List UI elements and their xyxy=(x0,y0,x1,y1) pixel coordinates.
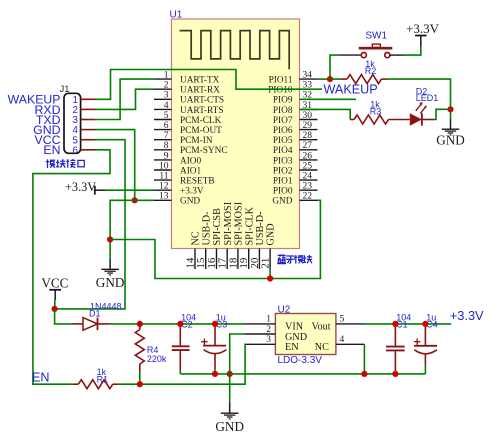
U1 pin 30 (PIO7) stub, number, name xyxy=(273,111,318,126)
wire U1 pin 31 to R3 xyxy=(300,109,351,119)
diode D1 1N4448 xyxy=(73,318,110,331)
svg-text:VIN: VIN xyxy=(285,321,304,332)
svg-text:6: 6 xyxy=(164,121,169,131)
svg-text:PIO2: PIO2 xyxy=(273,166,293,176)
U1 pin 13 (GND) stub, number, name xyxy=(154,192,200,207)
capacitor C4 1u polarized xyxy=(414,324,437,374)
svg-text:PIO9: PIO9 xyxy=(273,96,293,106)
svg-text:12: 12 xyxy=(159,182,169,192)
svg-text:3: 3 xyxy=(266,335,271,345)
svg-text:9: 9 xyxy=(164,151,169,161)
U2 pin 4 stub xyxy=(336,335,365,345)
label LDO-3.3V xyxy=(278,355,323,366)
svg-text:1: 1 xyxy=(266,315,271,325)
svg-text:13: 13 xyxy=(159,192,169,202)
U1 pin 12 (+3.3V) stub, number, name xyxy=(154,182,204,197)
svg-text:SPI-MOSI: SPI-MOSI xyxy=(223,201,234,245)
svg-text:AIO0: AIO0 xyxy=(180,156,202,166)
U1 pin 20 (USB-D-) stub, number, name (rotated) xyxy=(249,211,266,269)
ground symbol bottom xyxy=(215,403,244,434)
svg-text:UART-TX: UART-TX xyxy=(180,76,220,86)
bluetooth module U1 body xyxy=(172,19,300,249)
svg-text:J1: J1 xyxy=(60,84,70,95)
U1 pin 33 (PIO10) stub, number, name xyxy=(268,81,317,96)
antenna meander inside U1 xyxy=(180,31,290,70)
resistor R1 xyxy=(73,380,118,389)
wire R2 to GND drop xyxy=(387,79,451,119)
svg-text:PIO0: PIO0 xyxy=(273,187,293,197)
svg-text:8: 8 xyxy=(164,141,169,151)
svg-text:R2: R2 xyxy=(365,66,377,76)
U1 pin 5 (PCM-CLK) stub, number, name xyxy=(154,111,222,126)
svg-text:PIO11: PIO11 xyxy=(269,76,293,86)
wire +3.3V to U1 pin 12 xyxy=(105,189,154,191)
designator U1 xyxy=(170,10,183,21)
wire U1 pin13 GND to left GND symbol xyxy=(110,200,154,259)
svg-text:7: 7 xyxy=(164,131,169,141)
U1 pin 19 (SPI-CLK) stub, number, name (rotated) xyxy=(238,206,255,269)
U2 pin names VIN Vout GND EN NC xyxy=(285,321,331,353)
value 1u / designator C4 xyxy=(426,313,438,330)
svg-text:D1: D1 xyxy=(89,309,101,319)
U1 pin 6 (PCM-OUT) stub, number, name xyxy=(154,121,222,136)
power port +3.3V top right xyxy=(406,21,440,36)
svg-text:EN: EN xyxy=(285,342,299,353)
wire LED cathode to GND drop xyxy=(434,109,451,119)
U1 pin 2 (UART-RX) stub, number, name xyxy=(154,81,220,96)
designator R4 / value 220k xyxy=(147,345,167,364)
wire bottom GND rail xyxy=(180,373,425,375)
svg-text:PCM-CLK: PCM-CLK xyxy=(180,116,222,126)
U1 pin 34 (PIO11) stub, number, name xyxy=(269,71,318,86)
U1 pin 3 (UART-CTS) stub, number, name xyxy=(154,91,224,106)
net label WAKEUP xyxy=(324,82,378,96)
svg-text:SPI-CSB: SPI-CSB xyxy=(212,208,223,246)
U1 pin 7 (PCM-IN) stub, number, name xyxy=(154,131,213,146)
svg-text:29: 29 xyxy=(303,121,313,131)
designator SW1 xyxy=(365,30,387,41)
svg-text:R1: R1 xyxy=(97,375,109,385)
net label EN xyxy=(32,370,50,384)
svg-text:SPI-CLK: SPI-CLK xyxy=(244,206,255,245)
svg-text:NC: NC xyxy=(315,342,329,353)
U1 pin 23 (PIO0) stub, number, name xyxy=(273,182,318,197)
label 模块接口 (module interface) under J1 xyxy=(46,159,85,168)
ground symbol top right xyxy=(436,119,465,148)
svg-text:RESETB: RESETB xyxy=(180,177,215,187)
svg-text:SW1: SW1 xyxy=(365,30,387,41)
U1 pin 10 (AIO1) stub, number, name xyxy=(154,161,202,176)
svg-text:PCM-OUT: PCM-OUT xyxy=(180,126,222,136)
svg-text:PIO10: PIO10 xyxy=(268,86,293,96)
svg-text:+3.3V: +3.3V xyxy=(406,21,440,36)
U2 pin 3 stub xyxy=(245,335,275,345)
junction VCC xyxy=(52,306,58,312)
U2 pin 5 stub xyxy=(336,315,365,325)
junction R4 / EN wire xyxy=(137,381,143,387)
U1 pin 8 (PCM-SYNC) stub, number, name xyxy=(154,141,228,156)
svg-text:27: 27 xyxy=(303,141,313,151)
connector J1 body xyxy=(64,93,81,153)
resistor R4 xyxy=(135,324,144,384)
svg-text:+3.3V: +3.3V xyxy=(65,180,96,194)
svg-text:24: 24 xyxy=(303,172,313,182)
J1 pin 1 (WAKEUP) number, pin line, label xyxy=(8,93,95,107)
wire EN: J1.6 down the left side to R1 xyxy=(33,150,110,384)
svg-text:30: 30 xyxy=(303,111,313,121)
svg-text:U1: U1 xyxy=(170,10,183,21)
svg-text:PIO6: PIO6 xyxy=(273,126,293,136)
svg-text:10: 10 xyxy=(159,161,169,171)
junction C3 top xyxy=(212,321,218,327)
junction D1/R4/rail xyxy=(137,321,143,327)
U1 pin 17 (SPI-MOSI) stub, number, name (rotated) xyxy=(217,201,234,269)
svg-text:PIO7: PIO7 xyxy=(273,116,293,126)
svg-text:GND: GND xyxy=(436,133,465,148)
capacitor C2 104 xyxy=(172,324,190,374)
U1 pin 28 (PIO5) stub, number, name xyxy=(273,131,318,146)
svg-text:28: 28 xyxy=(303,131,313,141)
wire U2 NC pin down to GND rail xyxy=(363,344,365,374)
svg-text:PIO4: PIO4 xyxy=(273,146,293,156)
svg-text:EN: EN xyxy=(32,370,50,384)
svg-text:U2: U2 xyxy=(278,304,291,315)
label 蓝牙模块 (bluetooth module) xyxy=(277,254,312,263)
U1 pin 21 (GND) stub, number, name (rotated) xyxy=(260,223,277,269)
value 1k / designator R2 xyxy=(365,59,377,76)
svg-text:AIO1: AIO1 xyxy=(180,166,202,176)
junction GND branch xyxy=(107,236,113,242)
junction C2 top xyxy=(177,321,183,327)
svg-text:3: 3 xyxy=(164,91,169,101)
wire U2 GND pin to ground xyxy=(230,334,245,403)
svg-text:EN: EN xyxy=(43,143,60,157)
svg-text:4: 4 xyxy=(340,335,345,345)
svg-text:PCM-IN: PCM-IN xyxy=(180,136,213,146)
wire GND: J1.4 down to U1 GND pin 13 wire xyxy=(95,130,135,201)
svg-text:+3.3V: +3.3V xyxy=(450,308,484,323)
svg-text:5: 5 xyxy=(340,315,345,325)
svg-text:23: 23 xyxy=(303,182,313,192)
wire EN net R1 to U2.EN xyxy=(118,344,245,384)
svg-text:+3.3V: +3.3V xyxy=(180,187,204,197)
svg-text:34: 34 xyxy=(303,71,313,81)
wire U1 pin 34 to SW1 and R2 xyxy=(318,55,362,79)
wire VCC down to D1 anode xyxy=(55,309,73,324)
resistor R3 xyxy=(350,115,410,124)
value 1k / designator R1 xyxy=(97,367,109,385)
J1 pin 4 (GND) number, pin line, label xyxy=(33,123,95,137)
U1 pin 26 (PIO3) stub, number, name xyxy=(273,151,318,166)
svg-text:6: 6 xyxy=(73,145,78,156)
svg-text:USB-D-: USB-D- xyxy=(201,211,212,246)
power port +3.3V at U1 pin 12 xyxy=(65,180,105,195)
junction C4 top xyxy=(422,321,428,327)
J1 pin 3 (TXD) number, pin line, label xyxy=(36,113,95,127)
ground symbol left xyxy=(96,259,125,290)
U1 pin 18 (SPI-MOSI) stub, number, name (rotated) xyxy=(227,201,244,269)
svg-text:26: 26 xyxy=(303,151,313,161)
designator D2 / LED1 xyxy=(416,86,439,103)
svg-text:1: 1 xyxy=(164,71,169,81)
svg-text:SPI-MOSI: SPI-MOSI xyxy=(234,201,245,245)
value 1k / designator R3 xyxy=(370,100,382,117)
junction C1 bottom xyxy=(392,371,398,377)
wire stub at U1 pin 32 (PIO9) xyxy=(300,98,357,100)
svg-text:2: 2 xyxy=(266,325,271,335)
wire Vout rail to +3.3V xyxy=(364,323,451,325)
value 104 / designator C1 xyxy=(396,313,411,330)
U1 pin 14 (NC) stub, number, name (rotated) xyxy=(184,231,201,269)
svg-text:GND: GND xyxy=(272,197,292,207)
svg-text:UART-RX: UART-RX xyxy=(180,86,220,96)
svg-text:UART-RTS: UART-RTS xyxy=(180,106,223,116)
svg-text:11: 11 xyxy=(159,172,168,182)
capacitor C3 1u polarized xyxy=(201,324,226,374)
svg-text:220k: 220k xyxy=(147,354,167,364)
U1 pin 27 (PIO4) stub, number, name xyxy=(273,141,318,156)
U1 pin 16 (SPI-CSB) stub, number, name (rotated) xyxy=(206,208,223,269)
svg-text:GND: GND xyxy=(215,419,244,434)
designator U2 xyxy=(278,304,291,315)
wire D1 cathode to VIN rail xyxy=(110,323,246,325)
pushbutton switch SW1 xyxy=(359,44,393,58)
svg-text:LDO-3.3V: LDO-3.3V xyxy=(278,355,323,366)
junction C3 bottom xyxy=(212,371,218,377)
wire TXD net: J1.3 to U1 UART-TX (pin 1) xyxy=(95,79,154,119)
svg-text:22: 22 xyxy=(303,192,313,202)
U1 pin 9 (AIO0) stub, number, name xyxy=(154,151,202,166)
U1 pin 1 (UART-TX) stub, number, name xyxy=(154,71,220,86)
svg-text:GND: GND xyxy=(180,197,200,207)
svg-text:Vout: Vout xyxy=(312,321,331,332)
net label +3.3V right xyxy=(450,308,484,323)
svg-text:5: 5 xyxy=(164,111,169,121)
junction pin34/SW1/R2 xyxy=(327,76,333,82)
value 104 / designator C2 xyxy=(181,312,196,329)
svg-text:PIO5: PIO5 xyxy=(273,136,293,146)
svg-text:WAKEUP: WAKEUP xyxy=(324,82,378,96)
U1 pin 11 (RESETB) stub, number, name xyxy=(154,172,215,187)
svg-text:PIO3: PIO3 xyxy=(273,156,293,166)
junction C1 top xyxy=(392,321,398,327)
svg-text:25: 25 xyxy=(303,161,313,171)
U2 pin 1 stub xyxy=(245,315,275,325)
svg-text:R3: R3 xyxy=(370,106,382,116)
svg-text:PCM-SYNC: PCM-SYNC xyxy=(180,146,228,156)
U1 pin 22 (GND) stub, number, name xyxy=(272,192,317,207)
wire VCC port to net xyxy=(54,300,56,309)
J1 pin 2 (RXD) number, pin line, label xyxy=(35,103,95,117)
regulator U2 body xyxy=(275,314,336,355)
designator J1 xyxy=(60,84,70,95)
U2 pin 2 stub xyxy=(245,325,275,335)
svg-text:USB-D-: USB-D- xyxy=(255,211,266,246)
capacitor C1 104 xyxy=(386,324,405,374)
U1 pin 29 (PIO6) stub, number, name xyxy=(273,121,318,136)
wire U1 pin 21 to GND rail xyxy=(269,269,271,279)
svg-text:2: 2 xyxy=(164,81,169,91)
wire WAKEUP net: J1.1 to U1 PIO10 (pin 33) xyxy=(95,70,322,100)
junction NC / GND rail xyxy=(361,371,367,377)
wire SW1 to +3.3V power port xyxy=(390,36,421,56)
U1 pin 15 (USB-D-) stub, number, name (rotated) xyxy=(195,211,212,269)
svg-text:GND: GND xyxy=(266,223,277,245)
resistor R2 xyxy=(330,75,387,84)
svg-text:21: 21 xyxy=(260,258,272,269)
wire RXD net: J1.2 to U1 UART-RX (pin 2) xyxy=(95,89,154,109)
U1 pin 32 (PIO9) stub, number, name xyxy=(273,91,318,106)
U1 pin 31 (PIO8) stub, number, name xyxy=(273,101,318,116)
svg-text:4: 4 xyxy=(164,101,169,111)
junction LED / GND drop xyxy=(447,106,453,112)
U1 pin 24 (PIO1) stub, number, name xyxy=(273,172,318,187)
svg-text:VCC: VCC xyxy=(41,276,68,291)
J1 pin 5 (VCC) number, pin line, label xyxy=(35,133,95,147)
junction GND rail / U2 GND xyxy=(227,371,233,377)
wire GND rail under module to U1 pin 22 xyxy=(110,200,320,278)
power port VCC xyxy=(41,276,68,300)
svg-text:NC: NC xyxy=(191,231,202,245)
J1 pin 6 (EN) number, pin line, label xyxy=(43,143,95,157)
junction pin21 / GND rail xyxy=(267,275,273,281)
U1 pin 25 (PIO2) stub, number, name xyxy=(273,161,318,176)
svg-text:PIO1: PIO1 xyxy=(273,177,293,187)
wire VCC: J1.5 down to VCC port row xyxy=(55,140,125,309)
value 1N4448 / designator D1 xyxy=(89,302,122,319)
svg-text:PIO8: PIO8 xyxy=(273,106,293,116)
LED D2 xyxy=(410,102,434,126)
svg-text:GND: GND xyxy=(96,275,125,290)
value 1u / designator C3 xyxy=(216,312,228,329)
U1 pin 4 (UART-RTS) stub, number, name xyxy=(154,101,223,116)
junction J1.4 / pin13 GND xyxy=(132,197,138,203)
svg-text:LED1: LED1 xyxy=(416,93,439,103)
svg-text:UART-CTS: UART-CTS xyxy=(180,96,224,106)
